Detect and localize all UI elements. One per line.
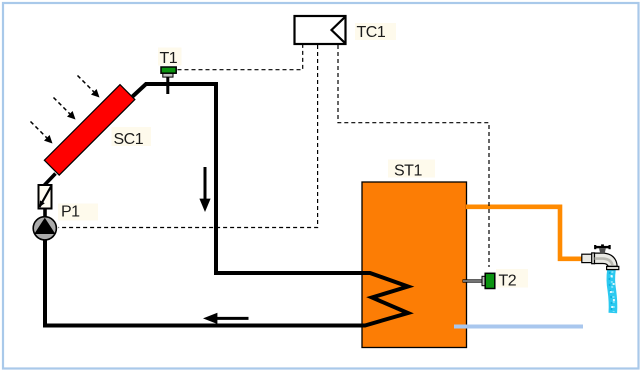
sun ray arrow 2 (54, 98, 76, 120)
controller dashed line to T1 (178, 45, 303, 70)
label T1 (158, 48, 182, 66)
label P1 (58, 204, 98, 221)
temperature sensor T2 (463, 273, 495, 288)
controller TC1 (295, 16, 346, 44)
flow arrow down (199, 167, 210, 212)
flow arrow left (203, 313, 249, 324)
svg-text:P1: P1 (61, 204, 80, 221)
pipe: collector supply loop with heat exchanger coil and return to pump (45, 84, 408, 326)
label SC1 (112, 127, 152, 146)
tap handle (595, 246, 610, 248)
pipe: valve to collector (45, 174, 56, 186)
sun ray arrow 1 (78, 76, 100, 98)
solar collector SC1 (44, 85, 135, 176)
hot water pipe (orange, tank to tap) (466, 207, 582, 259)
label ST1 (388, 160, 435, 178)
label T2 (496, 269, 528, 288)
svg-text:ST1: ST1 (394, 163, 422, 180)
svg-text:TC1: TC1 (357, 24, 386, 41)
tank ST1 (362, 182, 467, 348)
pump P1 (33, 217, 56, 240)
label TC1 (355, 23, 396, 40)
check valve above pump (39, 185, 52, 209)
tap body (582, 254, 593, 262)
svg-text:SC1: SC1 (114, 131, 144, 148)
controller dashed line to T2 (338, 45, 489, 267)
cold water pipe (light blue) (454, 325, 583, 329)
svg-text:T2: T2 (499, 273, 517, 290)
controller dashed line to P1 (59, 45, 318, 228)
sun ray arrow 3 (31, 122, 53, 144)
svg-text:T1: T1 (160, 50, 178, 67)
temperature sensor T1 (161, 67, 176, 94)
pipe: pump to valve (43, 206, 47, 218)
tap water stream (611, 270, 613, 314)
tap (faucet) (582, 244, 619, 313)
